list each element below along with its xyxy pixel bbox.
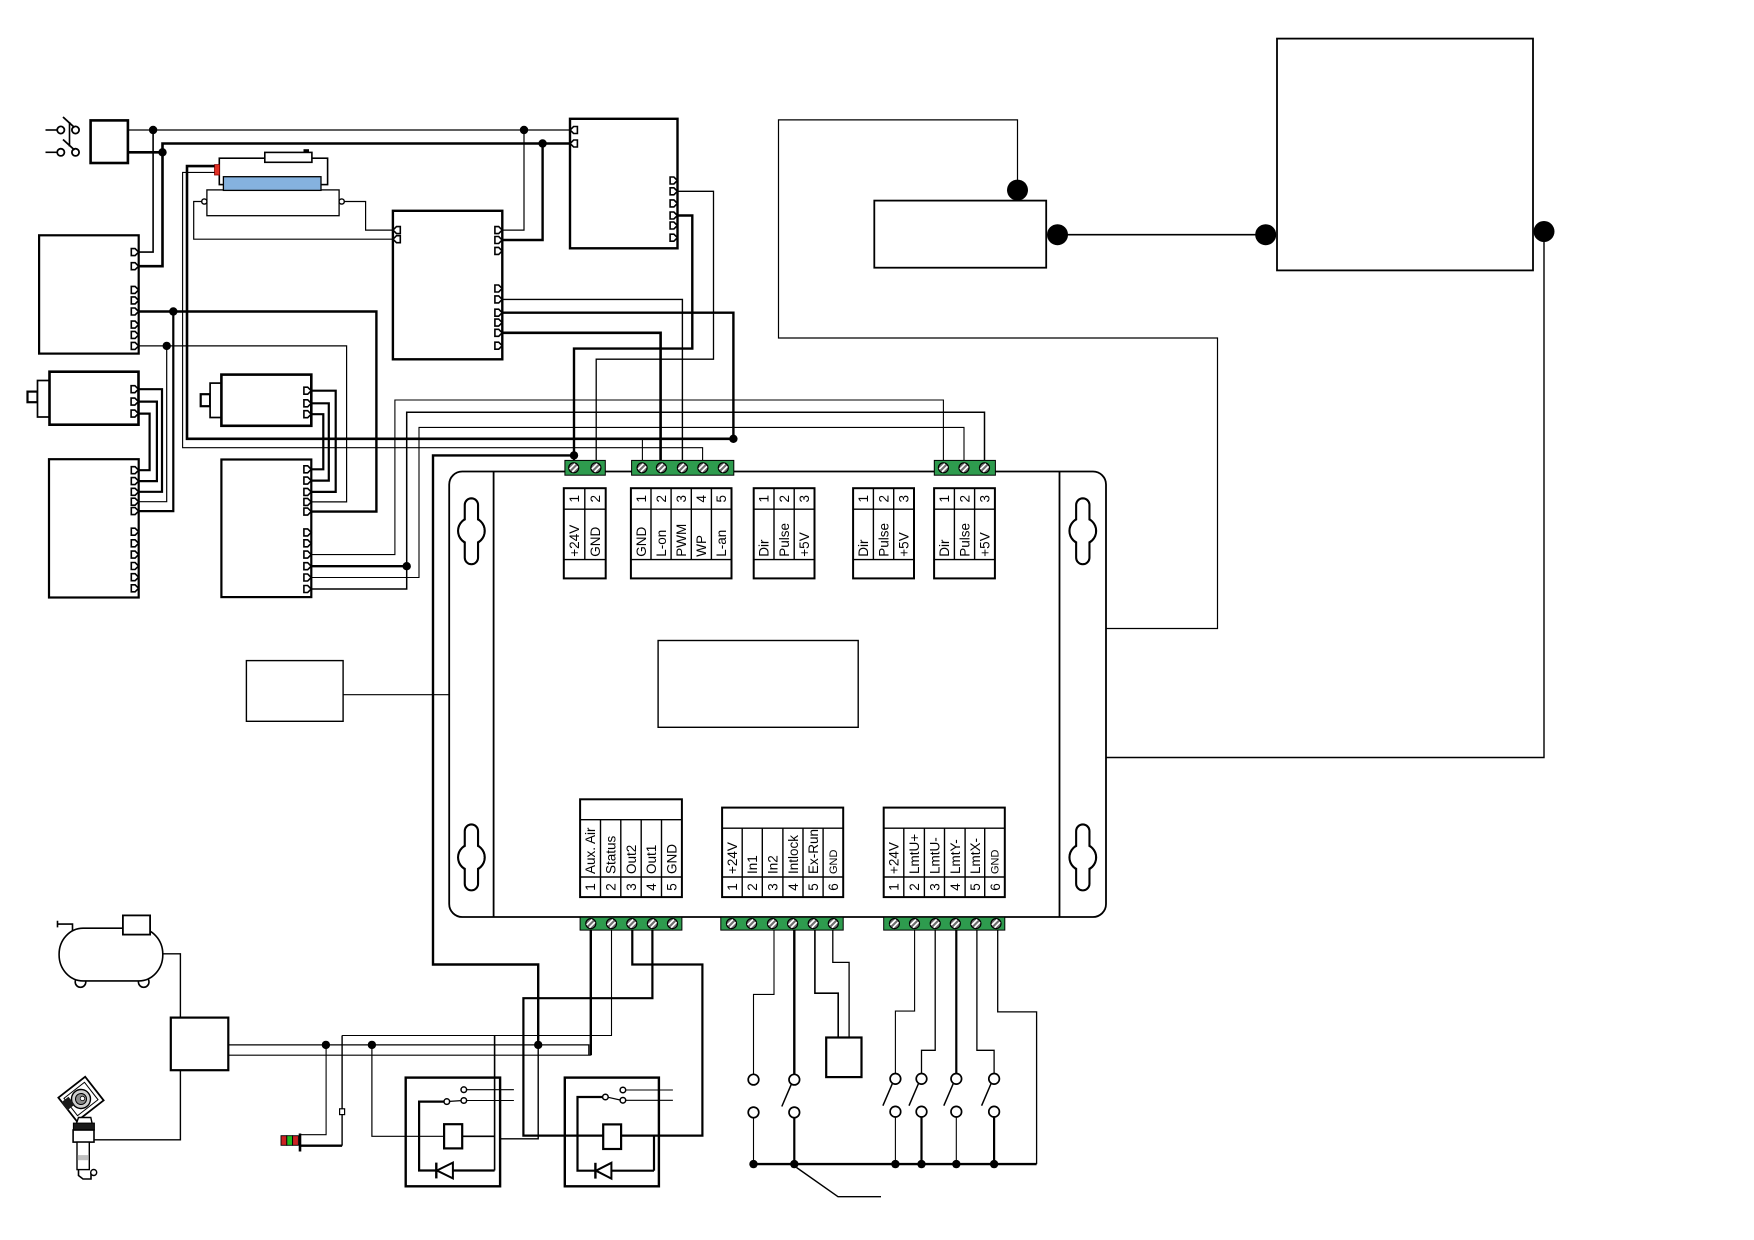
junction dot N at x162 xyxy=(158,148,166,156)
relay K1 contact common circle xyxy=(444,1099,450,1105)
limit switch LS1 bottom contact xyxy=(890,1106,901,1117)
wire accessory box to controller xyxy=(343,694,449,696)
motor M1 pin 3 xyxy=(131,410,138,417)
terminal strip TB3 green xyxy=(934,460,995,475)
wire N line thick from breaker xyxy=(128,151,163,154)
wire U2 L-an output to dot xyxy=(502,313,733,439)
connection blob pump outlet xyxy=(1047,224,1068,245)
driver D1 pin 3 xyxy=(131,488,138,495)
svg-text:Aux. Air: Aux. Air xyxy=(583,827,598,874)
driver D2 pin 4 xyxy=(304,498,311,505)
water pump neck xyxy=(76,1118,92,1124)
wire junction box return line xyxy=(228,1054,591,1056)
terminal strip TB6 green xyxy=(884,917,1005,930)
driver D2 pin 7 xyxy=(304,540,311,547)
svg-text:4: 4 xyxy=(644,883,659,891)
svg-text:GND: GND xyxy=(828,850,840,875)
svg-text:1: 1 xyxy=(634,495,649,503)
TB2 screw 1 xyxy=(637,463,647,473)
relay K2 contact NC circle xyxy=(620,1098,626,1104)
U2 right pin 5 xyxy=(495,296,502,303)
bed left terminal circle xyxy=(202,199,207,204)
wire Ex-Run to e-stop xyxy=(815,930,838,1037)
svg-text:+24V: +24V xyxy=(725,842,740,874)
svg-text:In1: In1 xyxy=(745,855,760,874)
relay K1 coil xyxy=(444,1124,462,1148)
laser tube glass (blue) xyxy=(223,177,321,191)
svg-text:2: 2 xyxy=(907,883,922,891)
junction dot SW1 bus xyxy=(749,1160,757,1168)
driver D2 pin 9 xyxy=(304,563,311,570)
PSU1 pin 2 xyxy=(131,263,138,270)
label block B6 outputs xyxy=(580,799,682,897)
svg-text:In2: In2 xyxy=(766,855,781,874)
B6 pin numbers 1-5 xyxy=(583,883,679,891)
keyhole slot top-right xyxy=(1070,498,1097,564)
svg-text:3: 3 xyxy=(674,495,689,503)
wire +24V stub to relay1 area xyxy=(500,1045,539,1139)
svg-text:3: 3 xyxy=(797,495,812,503)
motor M2 pin 1 xyxy=(304,387,311,394)
svg-text:PWM: PWM xyxy=(674,524,689,557)
U2 right pin 4 xyxy=(495,285,502,292)
stepper driver D1 box xyxy=(49,459,139,597)
relay K1 right riser xyxy=(494,1036,496,1171)
power supply PSU1 box xyxy=(39,235,139,353)
junction dot lamp branch xyxy=(322,1041,330,1049)
driver D1 pin 1 xyxy=(131,467,138,474)
wire relay K2 coil left feed from Out1 xyxy=(523,930,652,1136)
TB4 screw 2 xyxy=(607,919,617,929)
water pump outlet elbow xyxy=(79,1170,92,1179)
svg-text:2: 2 xyxy=(745,883,760,891)
wire U2 PWM to PWM screw xyxy=(502,299,682,463)
relay K2 diode D2 xyxy=(595,1163,654,1179)
motor M2 pin 2 xyxy=(304,400,311,407)
junction dot LS2 bus xyxy=(917,1160,925,1168)
svg-text:6: 6 xyxy=(988,883,1003,891)
svg-text:GND: GND xyxy=(634,526,649,556)
PSU1 pin 1 xyxy=(131,249,138,256)
terminal strip TB2 green xyxy=(632,460,734,475)
TB4 screw 4 xyxy=(647,919,657,929)
switch S1 blade upper xyxy=(63,117,75,128)
wire D2 Pulse to Pulse screw xyxy=(311,427,964,577)
junction dot N at x542 xyxy=(538,139,546,147)
switch S1 pole contacts lower xyxy=(57,149,79,156)
water pump outlet tip xyxy=(91,1170,97,1176)
svg-text:Intlock: Intlock xyxy=(786,835,801,874)
label block B5 axis X xyxy=(934,488,995,578)
air tank body xyxy=(59,928,163,981)
relay K1 common wire xyxy=(419,1102,444,1171)
wire U1 +24V out to +24V screw dot xyxy=(574,216,692,456)
svg-text:+5V: +5V xyxy=(978,532,993,556)
relay K2 contact NO circle xyxy=(620,1087,626,1093)
wire U1 GND out to GND screw xyxy=(596,191,713,463)
breaker box S1 xyxy=(91,120,128,163)
switch S1 blade lower xyxy=(63,140,75,151)
driver D1 pin 5 xyxy=(131,508,138,515)
limit switch LS4 blade xyxy=(982,1084,992,1106)
svg-text:Dir: Dir xyxy=(856,539,871,557)
wire V- branch to driver1 pin4 xyxy=(139,346,167,502)
wire U2 mains L tap xyxy=(502,130,524,230)
label block B8 limits xyxy=(884,808,1005,898)
water pump box top right xyxy=(874,201,1046,268)
terminal strip TB5 green xyxy=(721,917,843,930)
water pump icon head xyxy=(58,1077,103,1122)
wire water-protect loop from controller xyxy=(779,120,1218,629)
relay K1 contact NC circle xyxy=(461,1098,467,1104)
relay K1 diode D1 xyxy=(436,1163,494,1179)
laser tube anode nub xyxy=(304,149,310,152)
motor M1 shaft tip xyxy=(28,392,38,403)
wire lamp terminal to fuse riser xyxy=(301,1144,342,1146)
svg-text:5: 5 xyxy=(806,883,821,891)
wire M2 pin1 to driver2 pin3 xyxy=(311,391,335,492)
TB5 screw 2 xyxy=(747,919,757,929)
B3 pin numbers 1-3 xyxy=(757,495,813,503)
TB4 screw 5 xyxy=(668,919,678,929)
wire drop L to PSU1 pin1 xyxy=(139,130,153,252)
svg-text:LmtU-: LmtU- xyxy=(927,837,942,874)
PSU1 pin 6 xyxy=(131,321,138,328)
relay K2 NC output wire xyxy=(626,1099,673,1101)
motor M2 shaft flange xyxy=(210,383,221,417)
relay K2 coil xyxy=(603,1124,621,1149)
switch S1 input stub wire upper xyxy=(46,129,58,131)
svg-text:3: 3 xyxy=(897,495,912,503)
laser tube outer body xyxy=(219,158,327,184)
svg-text:WP: WP xyxy=(694,535,709,557)
driver D1 pin 6 xyxy=(131,528,138,535)
svg-text:Out2: Out2 xyxy=(624,845,639,874)
wire GND screw stub from HV line xyxy=(641,440,643,463)
svg-text:4: 4 xyxy=(786,883,801,891)
wire tube HV thick to L-an dot xyxy=(187,166,733,439)
wire LmtX- to limit switch LS4 xyxy=(977,930,994,1073)
svg-text:5: 5 xyxy=(714,495,729,503)
common bus wire xyxy=(754,1163,1037,1165)
U2 right pin 3 xyxy=(495,247,502,254)
svg-text:3: 3 xyxy=(766,883,781,891)
chassis tail slant from bus xyxy=(797,1168,882,1197)
motor M2 shaft tip xyxy=(201,394,210,406)
junction dot L at x524 xyxy=(520,126,528,134)
B2 pin numbers 1-5 xyxy=(634,494,729,502)
wire +24V short drop to screw xyxy=(573,455,575,463)
junction dot V+ branch xyxy=(169,307,177,315)
TB6 screw 4 xyxy=(950,919,960,929)
interlock switch SW2 blade xyxy=(782,1084,792,1106)
controller display window xyxy=(658,641,858,728)
label block B1 +24V GND xyxy=(564,488,606,578)
driver D1 pin 10 xyxy=(131,574,138,581)
TB5 screw 1 xyxy=(727,919,737,929)
svg-text:6: 6 xyxy=(826,883,841,891)
wire M1 pin2 to driver1 pin2 xyxy=(139,402,157,482)
wire SW1 to common bus xyxy=(753,1118,755,1164)
PSU1 pin 4 xyxy=(131,297,138,304)
driver D1 pin 8 xyxy=(131,551,138,558)
air tank pressure box xyxy=(123,915,150,934)
TB1 screw 1 xyxy=(569,463,579,473)
driver D1 pin 9 xyxy=(131,563,138,570)
U2 left pin 1 xyxy=(393,227,400,234)
B4 pin numbers 1-3 xyxy=(856,495,912,503)
driver D2 pin 8 xyxy=(304,551,311,558)
svg-text:LmtX-: LmtX- xyxy=(968,838,983,874)
air tank inlet pipe xyxy=(58,921,73,931)
junction dot L-an line xyxy=(729,435,737,443)
svg-text:2: 2 xyxy=(876,495,891,503)
wire L line thin from breaker to PSU24V pin1 xyxy=(128,129,570,131)
TB6 screw 2 xyxy=(910,919,920,929)
junction dot LS3 bus xyxy=(952,1160,960,1168)
limit switch LS3 blade xyxy=(944,1084,954,1106)
wire relay K1 coil right xyxy=(462,1135,494,1137)
wire TB5 GND to e-stop xyxy=(833,930,849,1037)
wire air tank to junction box xyxy=(163,954,181,1018)
U2 right pin 7 xyxy=(495,319,502,326)
motor M2 pin 3 xyxy=(304,411,311,418)
motor M1 pin 1 xyxy=(131,386,138,393)
wire M1 pin3 to driver1 pin1 xyxy=(139,414,150,471)
svg-text:2: 2 xyxy=(588,495,603,503)
limit switch LS4 top contact xyxy=(989,1074,1000,1085)
svg-text:GND: GND xyxy=(588,526,603,556)
interlock switch SW2 bottom contact xyxy=(789,1107,800,1118)
terminal strip TB4 green xyxy=(580,917,682,930)
wire bed right to laser PSU left pin1 xyxy=(344,202,393,231)
wire LmtU- to limit switch LS2 xyxy=(922,930,936,1073)
TB1 screw 2 xyxy=(591,463,601,473)
wire LS3 to bus xyxy=(955,1117,957,1164)
wire status line to Status screw xyxy=(342,930,611,1035)
svg-text:5: 5 xyxy=(968,883,983,891)
door switch SW1 bottom contact xyxy=(748,1107,759,1118)
wire LS2 to bus xyxy=(920,1117,922,1164)
svg-text:4: 4 xyxy=(694,494,709,502)
svg-text:1: 1 xyxy=(583,883,598,891)
driver D1 pin 7 xyxy=(131,540,138,547)
air tank wheel left xyxy=(75,977,86,988)
driver D1 pin 2 xyxy=(131,478,138,485)
wire D2 +5V second pin and run to +5V screw xyxy=(311,412,984,589)
TB6 screw 1 xyxy=(889,919,899,929)
relay K1 contact NO circle xyxy=(461,1087,467,1093)
wire Aux Air screw to return line xyxy=(590,930,592,1055)
motor M1 body xyxy=(50,372,139,425)
wire D2 Dir to Dir screw xyxy=(311,400,943,555)
svg-text:5: 5 xyxy=(665,883,680,891)
svg-text:2: 2 xyxy=(654,495,669,503)
wire LmtY- to limit switch LS3 xyxy=(955,930,957,1073)
junction dot LS1 bus xyxy=(891,1160,899,1168)
wire M1 pin1 to driver1 pin3 xyxy=(139,389,163,492)
svg-text:2: 2 xyxy=(777,495,792,503)
motor M1 shaft flange xyxy=(38,381,50,418)
label block B2 laser signals xyxy=(631,488,732,578)
TB2 screw 5 xyxy=(718,463,728,473)
status lamp mounting bar xyxy=(299,1134,302,1152)
wire +24V long run to bottom area xyxy=(433,455,574,1045)
TB2 screw 2 xyxy=(656,463,666,473)
svg-text:GND: GND xyxy=(665,844,680,874)
wire pump to chiller xyxy=(1058,234,1266,236)
TB5 screw 3 xyxy=(768,919,778,929)
PSU1 pin 7 xyxy=(131,331,138,338)
U1 right pin 4 xyxy=(670,212,677,219)
relay K2 common wire xyxy=(578,1097,603,1171)
junction box pump control xyxy=(171,1018,229,1071)
svg-text:+5V: +5V xyxy=(897,532,912,556)
wire N thick corner up and long to PSU24V pin2 xyxy=(163,144,571,153)
svg-text:+24V: +24V xyxy=(567,525,582,557)
controller left flange line xyxy=(493,472,495,918)
TB6 screw 3 xyxy=(930,919,940,929)
PSU1 pin 3 xyxy=(131,286,138,293)
svg-text:+24V: +24V xyxy=(887,842,902,874)
keyhole slot top-left xyxy=(458,498,485,564)
limit switch LS2 top contact xyxy=(916,1074,927,1085)
air tank wheel right xyxy=(138,977,149,988)
svg-text:1: 1 xyxy=(856,495,871,503)
svg-text:Pulse: Pulse xyxy=(957,523,972,557)
water pump band xyxy=(78,1155,89,1160)
svg-text:Status: Status xyxy=(603,835,618,874)
relay K2 box xyxy=(565,1078,659,1187)
fuse on riser xyxy=(340,1109,345,1115)
TB6 screw 5 xyxy=(971,919,981,929)
24V power supply U1 box xyxy=(570,119,678,249)
driver D2 pin 6 xyxy=(304,529,311,536)
U2 left pin 2 xyxy=(393,236,400,243)
stepper driver D2 box xyxy=(221,460,311,598)
svg-text:1: 1 xyxy=(937,495,952,503)
TB3 screw 2 xyxy=(959,463,969,473)
motor M1 pin 2 xyxy=(131,398,138,405)
limit switch LS2 bottom contact xyxy=(916,1106,927,1117)
switch S1 mechanical link xyxy=(69,122,71,147)
wire tube sense thin to WP screw xyxy=(183,172,703,463)
wire U2 mains N tap xyxy=(502,144,542,241)
U1 right pin 6 xyxy=(670,234,677,241)
bed right terminal circle xyxy=(339,199,344,204)
svg-text:Ex-Run: Ex-Run xyxy=(806,829,821,874)
junction dot +24V at pump line xyxy=(534,1041,542,1049)
svg-text:2: 2 xyxy=(603,883,618,891)
svg-text:3: 3 xyxy=(978,495,993,503)
limit switch LS1 top contact xyxy=(890,1074,901,1085)
emergency stop box xyxy=(826,1038,861,1078)
svg-text:1: 1 xyxy=(725,883,740,891)
wire relay K1 coil left feed xyxy=(372,1045,444,1136)
wire M2 pin3 to driver2 pin1 xyxy=(311,414,323,469)
keyhole slot bottom-left xyxy=(458,825,485,891)
svg-text:2: 2 xyxy=(957,495,972,503)
svg-text:LmtU+: LmtU+ xyxy=(907,834,922,874)
svg-text:4: 4 xyxy=(948,883,963,891)
controller right flange line xyxy=(1059,472,1061,918)
wire In2 to door switch SW1 xyxy=(754,930,775,1074)
junction dot relay1 branch xyxy=(368,1041,376,1049)
driver D2 pin 2 xyxy=(304,477,311,484)
wire drop N to PSU1 pin2 xyxy=(139,152,163,266)
wire Intlock to switch SW2 xyxy=(793,930,795,1074)
U1 right pin 5 xyxy=(670,222,677,229)
junction dot LS4 bus xyxy=(990,1160,998,1168)
junction dot +24V above screw xyxy=(570,451,578,459)
svg-text:Pulse: Pulse xyxy=(777,523,792,557)
relay K2 right riser xyxy=(653,1136,655,1171)
TB3 screw 1 xyxy=(938,463,948,473)
wire U2 L-on to L-on screw xyxy=(502,333,660,463)
status lamp red cell 1 xyxy=(281,1136,287,1146)
wire fuse riser to status line xyxy=(341,1036,343,1146)
TB2 screw 4 xyxy=(698,463,708,473)
TB3 screw 3 xyxy=(980,463,990,473)
U2 right pin 1 xyxy=(495,227,502,234)
relay K1 NO output wire xyxy=(467,1089,514,1091)
relay K2 NO output wire xyxy=(626,1089,673,1091)
label block B7 inputs xyxy=(722,808,843,898)
wire LS1 to bus xyxy=(894,1117,896,1164)
wire D2 +5V pin to dot xyxy=(311,565,406,567)
chiller box top right xyxy=(1277,39,1533,271)
U2 right pin 8 xyxy=(495,329,502,336)
svg-text:Pulse: Pulse xyxy=(876,523,891,557)
svg-text:1: 1 xyxy=(567,495,582,503)
PSU1 pin 8 xyxy=(131,342,138,349)
U1 right pin 2 xyxy=(670,188,677,195)
switch S1 pole contacts upper xyxy=(57,126,79,133)
wire M2 pin2 to driver2 pin2 xyxy=(311,403,329,480)
TB4 screw 1 xyxy=(586,919,596,929)
wire lamp terminal to feed dot xyxy=(301,1045,326,1135)
driver D2 pin 1 xyxy=(304,466,311,473)
label block B3 axis U xyxy=(754,488,815,578)
driver D2 pin 11 xyxy=(304,586,311,593)
wire relay K2 coil right to Out2 xyxy=(621,930,702,1136)
TB2 screw 3 xyxy=(677,463,687,473)
connection blob chiller outlet xyxy=(1534,221,1555,242)
svg-text:1: 1 xyxy=(887,883,902,891)
wire bed left to laser PSU left pin2 xyxy=(194,202,393,240)
B5 pin numbers 1-3 xyxy=(937,495,993,503)
U2 right pin 2 xyxy=(495,237,502,244)
U2 right pin 6 xyxy=(495,309,502,316)
limit switch LS1 blade xyxy=(883,1084,893,1106)
U1 right pin 3 xyxy=(670,200,677,207)
controller main enclosure xyxy=(449,472,1106,918)
relay K1 box xyxy=(406,1078,500,1187)
svg-text:Dir: Dir xyxy=(757,539,772,557)
laser tube water fitting xyxy=(265,152,312,162)
U1 right pin 1 xyxy=(670,177,677,184)
B7 pin numbers 1-6 xyxy=(725,883,841,891)
svg-text:3: 3 xyxy=(927,883,942,891)
accessory box left of controller xyxy=(246,661,343,722)
svg-text:Dir: Dir xyxy=(937,539,952,557)
junction dot SW2 bus xyxy=(790,1160,798,1168)
limit switch LS3 bottom contact xyxy=(951,1106,962,1117)
water pump lower body xyxy=(77,1142,89,1170)
wire bus to TB6 GND xyxy=(998,930,1037,1164)
water pump upper body xyxy=(73,1130,94,1142)
svg-text:+5V: +5V xyxy=(797,532,812,556)
